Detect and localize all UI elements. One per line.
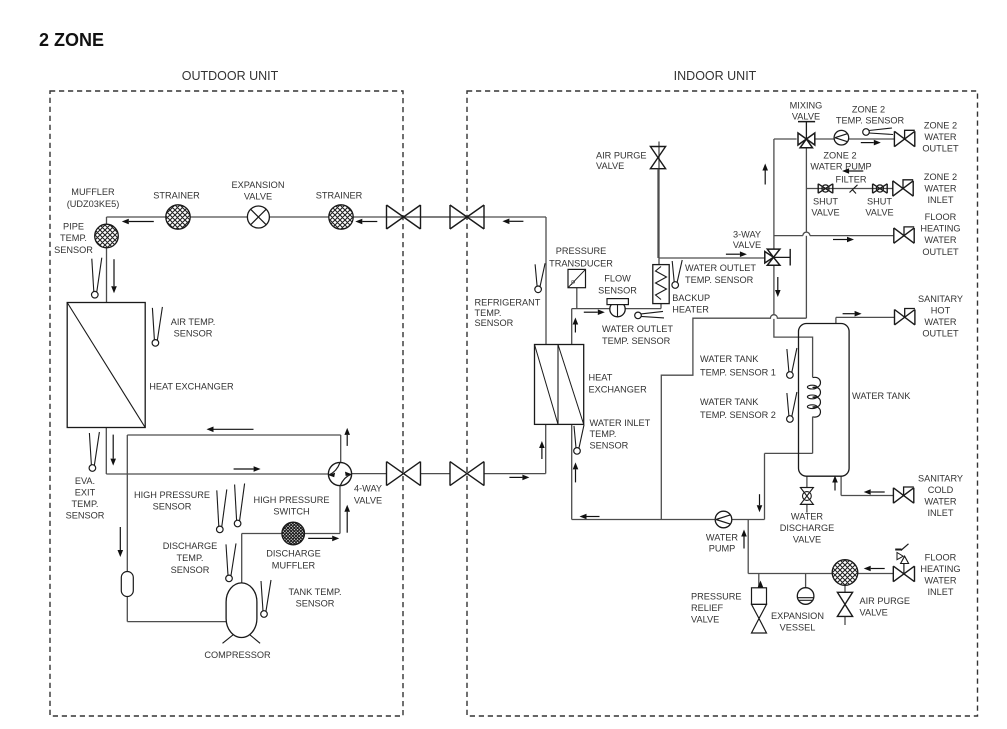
svg-text:STRAINER: STRAINER xyxy=(153,191,200,201)
svg-text:SENSOR: SENSOR xyxy=(66,511,105,521)
svg-text:TEMP.: TEMP. xyxy=(60,233,87,243)
svg-text:WATER: WATER xyxy=(924,132,957,142)
svg-text:VALVE: VALVE xyxy=(860,608,888,618)
svg-text:FLOOR: FLOOR xyxy=(925,553,957,563)
svg-text:TEMP.: TEMP. xyxy=(177,553,204,563)
svg-text:ZONE 2: ZONE 2 xyxy=(924,121,957,131)
svg-text:P: P xyxy=(571,280,575,287)
svg-text:OUTLET: OUTLET xyxy=(922,247,959,257)
svg-text:(UDZ03KE5): (UDZ03KE5) xyxy=(67,199,120,209)
svg-text:SHUT: SHUT xyxy=(867,196,892,206)
svg-text:TEMP. SENSOR: TEMP. SENSOR xyxy=(685,275,754,285)
svg-text:WATER: WATER xyxy=(924,317,957,327)
svg-text:REFRIGERANT: REFRIGERANT xyxy=(475,298,541,308)
svg-text:ZONE 2: ZONE 2 xyxy=(924,172,957,182)
svg-text:AIR PURGE: AIR PURGE xyxy=(860,596,911,606)
svg-text:WATER PUMP: WATER PUMP xyxy=(810,162,871,172)
svg-text:PIPE: PIPE xyxy=(63,222,84,232)
svg-text:HIGH PRESSURE: HIGH PRESSURE xyxy=(253,495,329,505)
svg-text:EXPANSION: EXPANSION xyxy=(232,180,285,190)
svg-text:ZONE 2: ZONE 2 xyxy=(852,105,885,115)
svg-text:TEMP.: TEMP. xyxy=(475,308,502,318)
svg-text:VALVE: VALVE xyxy=(354,496,382,506)
svg-text:TEMP. SENSOR 1: TEMP. SENSOR 1 xyxy=(700,368,776,378)
svg-text:SENSOR: SENSOR xyxy=(590,440,629,450)
svg-text:TANK TEMP.: TANK TEMP. xyxy=(288,587,341,597)
svg-text:WATER: WATER xyxy=(706,533,739,543)
svg-text:SENSOR: SENSOR xyxy=(171,565,210,575)
svg-text:WATER TANK: WATER TANK xyxy=(852,391,911,401)
svg-text:PUMP: PUMP xyxy=(709,544,736,554)
svg-text:VALVE: VALVE xyxy=(865,208,893,218)
svg-text:VALVE: VALVE xyxy=(792,112,820,122)
svg-text:COLD: COLD xyxy=(928,485,954,495)
svg-text:WATER: WATER xyxy=(924,497,957,507)
svg-text:HIGH PRESSURE: HIGH PRESSURE xyxy=(134,490,210,500)
svg-text:INLET: INLET xyxy=(927,195,953,205)
svg-text:WATER: WATER xyxy=(791,512,824,522)
svg-text:DISCHARGE: DISCHARGE xyxy=(266,549,321,559)
svg-text:WATER TANK: WATER TANK xyxy=(700,354,759,364)
svg-text:ZONE 2: ZONE 2 xyxy=(823,150,856,160)
svg-text:VALVE: VALVE xyxy=(733,240,761,250)
svg-text:EXIT: EXIT xyxy=(75,488,96,498)
svg-text:2 ZONE: 2 ZONE xyxy=(39,30,104,50)
svg-text:VESSEL: VESSEL xyxy=(780,623,816,633)
svg-text:AIR PURGE: AIR PURGE xyxy=(596,151,647,161)
svg-text:WATER: WATER xyxy=(924,576,957,586)
svg-text:VALVE: VALVE xyxy=(244,192,272,202)
svg-text:EVA.: EVA. xyxy=(75,476,95,486)
svg-text:SENSOR: SENSOR xyxy=(54,245,93,255)
svg-text:HOT: HOT xyxy=(931,306,951,316)
svg-text:FLOW: FLOW xyxy=(604,274,631,284)
svg-text:SHUT: SHUT xyxy=(813,196,838,206)
svg-text:COMPRESSOR: COMPRESSOR xyxy=(204,650,271,660)
svg-text:3-WAY: 3-WAY xyxy=(733,229,761,239)
svg-text:WATER INLET: WATER INLET xyxy=(590,418,651,428)
svg-text:WATER OUTLET: WATER OUTLET xyxy=(685,263,756,273)
svg-text:TEMP.: TEMP. xyxy=(590,429,617,439)
svg-text:SENSOR: SENSOR xyxy=(475,318,514,328)
svg-text:HEATING: HEATING xyxy=(920,224,960,234)
svg-text:INLET: INLET xyxy=(927,508,953,518)
svg-text:HEAT EXCHANGER: HEAT EXCHANGER xyxy=(149,382,234,392)
svg-text:INDOOR UNIT: INDOOR UNIT xyxy=(674,69,757,83)
svg-text:TEMP. SENSOR: TEMP. SENSOR xyxy=(602,336,671,346)
svg-text:VALVE: VALVE xyxy=(596,161,624,171)
svg-text:TEMP.: TEMP. xyxy=(72,499,99,509)
svg-text:SANITARY: SANITARY xyxy=(918,474,963,484)
svg-text:HEATER: HEATER xyxy=(672,304,709,314)
svg-text:VALVE: VALVE xyxy=(691,614,719,624)
svg-text:WATER OUTLET: WATER OUTLET xyxy=(602,324,673,334)
svg-text:FILTER: FILTER xyxy=(836,175,867,185)
svg-text:TRANSDUCER: TRANSDUCER xyxy=(549,258,613,268)
svg-text:PRESSURE: PRESSURE xyxy=(691,592,742,602)
svg-text:HEAT: HEAT xyxy=(589,373,613,383)
svg-text:SENSOR: SENSOR xyxy=(174,329,213,339)
svg-text:SENSOR: SENSOR xyxy=(296,599,335,609)
svg-text:OUTLET: OUTLET xyxy=(922,144,959,154)
svg-text:SENSOR: SENSOR xyxy=(153,502,192,512)
svg-text:VALVE: VALVE xyxy=(793,534,821,544)
svg-text:WATER: WATER xyxy=(924,235,957,245)
svg-text:RELIEF: RELIEF xyxy=(691,603,724,613)
svg-text:SENSOR: SENSOR xyxy=(598,285,637,295)
svg-text:AIR TEMP.: AIR TEMP. xyxy=(171,317,216,327)
svg-text:PRESSURE: PRESSURE xyxy=(556,246,607,256)
svg-text:MUFFLER: MUFFLER xyxy=(71,187,115,197)
svg-text:DISCHARGE: DISCHARGE xyxy=(163,541,218,551)
svg-text:WATER TANK: WATER TANK xyxy=(700,397,759,407)
svg-text:EXPANSION: EXPANSION xyxy=(771,611,824,621)
svg-text:DISCHARGE: DISCHARGE xyxy=(780,523,835,533)
svg-text:MUFFLER: MUFFLER xyxy=(272,561,316,571)
svg-text:4-WAY: 4-WAY xyxy=(354,484,382,494)
svg-text:FLOOR: FLOOR xyxy=(925,212,957,222)
svg-text:OUTDOOR UNIT: OUTDOOR UNIT xyxy=(182,69,279,83)
svg-text:TEMP. SENSOR: TEMP. SENSOR xyxy=(836,115,905,125)
svg-text:VALVE: VALVE xyxy=(811,208,839,218)
svg-text:TEMP. SENSOR 2: TEMP. SENSOR 2 xyxy=(700,410,776,420)
svg-text:WATER: WATER xyxy=(924,184,957,194)
svg-text:BACKUP: BACKUP xyxy=(672,293,710,303)
svg-text:STRAINER: STRAINER xyxy=(316,191,363,201)
svg-text:EXCHANGER: EXCHANGER xyxy=(589,385,648,395)
svg-text:SANITARY: SANITARY xyxy=(918,294,963,304)
svg-text:SWITCH: SWITCH xyxy=(273,507,309,517)
svg-text:MIXING: MIXING xyxy=(790,101,823,111)
svg-text:OUTLET: OUTLET xyxy=(922,329,959,339)
svg-text:HEATING: HEATING xyxy=(920,564,960,574)
svg-text:INLET: INLET xyxy=(927,587,953,597)
